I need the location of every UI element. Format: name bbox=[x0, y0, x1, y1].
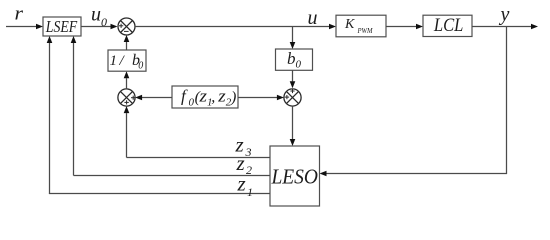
svg-text:0: 0 bbox=[138, 61, 143, 72]
svg-text:): ) bbox=[230, 89, 236, 106]
wire: LSEF output to sum S1 bbox=[81, 24, 118, 30]
wire: z1 output line bbox=[47, 36, 270, 194]
wire: S2 output up to 1/b0 bbox=[124, 71, 130, 89]
node z3 label bbox=[235, 133, 252, 160]
block b0 bbox=[276, 49, 313, 71]
S2 plus sign bottom bbox=[124, 100, 128, 104]
wire: f0 output to sum S2 bbox=[135, 95, 172, 101]
svg-text:1: 1 bbox=[247, 185, 253, 199]
node u0 label bbox=[91, 4, 107, 30]
summing junction S1 bbox=[118, 18, 135, 35]
svg-text:r: r bbox=[15, 4, 24, 25]
S2 plus sign right bbox=[131, 96, 135, 100]
svg-text:0: 0 bbox=[101, 15, 107, 29]
block LCL bbox=[423, 15, 472, 36]
block f0(z1,z2) bbox=[172, 86, 238, 109]
block LSEF bbox=[43, 17, 81, 36]
svg-text:0: 0 bbox=[189, 97, 195, 109]
wire: z3 output line bbox=[124, 106, 270, 157]
wire: S3 output down to LESO bbox=[290, 106, 296, 146]
svg-text:y: y bbox=[499, 4, 510, 26]
S1 plus sign bbox=[119, 24, 123, 28]
wire: y feedback to LESO bbox=[320, 171, 508, 177]
block LESO bbox=[270, 146, 320, 206]
svg-text:u: u bbox=[308, 7, 318, 29]
svg-text:LESO: LESO bbox=[271, 165, 318, 189]
wire: u branch down to b0 bbox=[290, 27, 296, 50]
wire: S1 to KPWM (u line) bbox=[135, 24, 336, 30]
S3 plus sign left bbox=[285, 95, 289, 99]
svg-text:LSEF: LSEF bbox=[45, 17, 78, 36]
svg-text:b: b bbox=[287, 49, 296, 68]
node z2 label bbox=[236, 151, 253, 177]
svg-text:0: 0 bbox=[296, 59, 302, 71]
wire: LCL output to y bbox=[472, 24, 538, 30]
svg-text:2: 2 bbox=[246, 163, 252, 177]
wire: y feedback down bbox=[506, 27, 508, 175]
block 1/b0 bbox=[108, 50, 146, 72]
wire: f0 output to sum S3 bbox=[238, 95, 284, 101]
svg-text:,: , bbox=[211, 89, 215, 106]
node y label bbox=[499, 4, 510, 26]
wire: b0 output down to sum S3 bbox=[290, 70, 296, 88]
wire: z2 output line bbox=[71, 36, 270, 176]
node r label bbox=[15, 4, 24, 25]
svg-text:LCL: LCL bbox=[433, 16, 463, 36]
svg-text:1: 1 bbox=[110, 53, 118, 69]
svg-text:K: K bbox=[344, 17, 355, 32]
wire: 1/b0 output up to S1 bbox=[124, 35, 130, 50]
svg-text:3: 3 bbox=[245, 145, 252, 159]
svg-text:z: z bbox=[237, 172, 246, 196]
summing junction S2 bbox=[118, 89, 135, 106]
S3 plus sign top bbox=[290, 89, 294, 93]
svg-text:PWM: PWM bbox=[357, 27, 374, 35]
node z1 label bbox=[237, 172, 254, 200]
wire: KPWM to LCL bbox=[386, 24, 423, 30]
block KPWM bbox=[336, 15, 386, 37]
svg-text:u: u bbox=[91, 4, 101, 26]
summing junction S3 bbox=[284, 89, 301, 106]
node u label bbox=[308, 7, 318, 29]
S1 minus sign bbox=[124, 30, 129, 32]
wire: r input line bbox=[6, 24, 43, 30]
